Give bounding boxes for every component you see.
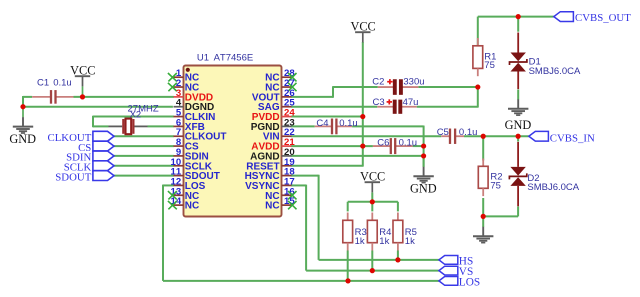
junction VCC/C1 bbox=[80, 94, 85, 99]
wire C1 right to DVDD pin 3 bbox=[74, 96, 174, 98]
capacitor C4 0.1u bbox=[315, 118, 358, 135]
pin 23 PGND (right) bbox=[251, 117, 295, 132]
svg-text:NC: NC bbox=[185, 201, 199, 212]
wire CLKIN pin 5 jog bbox=[93, 116, 174, 128]
pin 27 NC (right) bbox=[265, 78, 296, 94]
wire GND line riser mid bbox=[423, 155, 425, 167]
wire VIN pin 22 to C5 bbox=[291, 135, 441, 137]
wire SCLK port to pin 10 bbox=[114, 165, 174, 167]
pin 24 PVDD (right) bbox=[252, 108, 296, 124]
pin 10 SCLK (left) bbox=[171, 157, 213, 173]
pin 11 SDOUT (left) bbox=[171, 167, 220, 183]
junction D2/CVBS_IN bbox=[516, 134, 521, 139]
junction CVBS_OUT/D1 bbox=[516, 14, 521, 19]
junction R3/LOS bbox=[345, 278, 350, 283]
pin 8 CS (left) bbox=[174, 137, 200, 153]
wire LOS row to port bbox=[163, 280, 439, 282]
pin 2 NC (left) bbox=[168, 78, 199, 94]
pin 7 CLKOUT (left) bbox=[174, 127, 227, 143]
ground (left, C1/DGND) bbox=[9, 107, 36, 146]
IC U1 value AT7456E bbox=[214, 53, 254, 64]
power flag VCC (pull-up rail) bbox=[360, 170, 385, 193]
wire LOS pin 12 jog down bbox=[163, 185, 174, 281]
port CVBS_IN bbox=[529, 131, 595, 144]
wire SDOUT port to pin 11 bbox=[114, 175, 174, 177]
wire VCC3 stem bbox=[371, 193, 373, 203]
svg-text:C5: C5 bbox=[437, 127, 449, 138]
capacitor C3 47u (polarized) bbox=[373, 97, 419, 114]
IC U1 refdes U1 bbox=[197, 53, 209, 64]
port LOS bbox=[439, 276, 480, 288]
wire pullup top rail bbox=[348, 202, 398, 212]
svg-text:SMBJ6.0CA: SMBJ6.0CA bbox=[527, 182, 579, 193]
wire C5 right to R2 junction bbox=[464, 135, 483, 137]
pin 28 NC (right) bbox=[265, 68, 296, 84]
junction R1/C2/C3 node bbox=[475, 84, 480, 89]
resistor R2 75 bbox=[478, 159, 502, 197]
wire R5 bottom to HS row bbox=[397, 251, 399, 260]
svg-text:1k: 1k bbox=[379, 236, 389, 247]
wire R4 bottom to VS row bbox=[371, 251, 373, 271]
pin 3 DVDD (left) bbox=[174, 88, 214, 104]
svg-text:75: 75 bbox=[484, 60, 495, 71]
svg-text:CVBS_IN: CVBS_IN bbox=[550, 132, 595, 144]
IC U1 pin-1 dot bbox=[186, 68, 190, 72]
wire D1 bottom to ground bbox=[517, 90, 519, 100]
wire GND to C1 row (net VCC/C1 left) bbox=[23, 96, 32, 107]
wire PVDD pin 24 to VCC line bbox=[291, 116, 363, 118]
wire D1 junction to CVBS_OUT bbox=[518, 16, 554, 18]
svg-text:47u: 47u bbox=[403, 97, 419, 108]
wire R2 junction to D2 junction to CVBS_IN bbox=[483, 135, 529, 137]
wire R1 bottom to junction bbox=[477, 85, 479, 88]
port HS bbox=[439, 255, 473, 267]
junction VCC/pull-up rail bbox=[370, 199, 375, 204]
wire C6 right to GND line bbox=[413, 145, 424, 147]
wire GND to DGND pin 4 bbox=[22, 106, 173, 108]
wire R1 top corner bbox=[478, 17, 518, 46]
TVS diode D1 SMBJ6.0CA bbox=[510, 33, 582, 90]
wire C3 right corner up to R1 junction bbox=[417, 87, 478, 108]
wire PGND pin 23 to C4 bbox=[291, 125, 315, 127]
svg-text:VCC: VCC bbox=[350, 19, 375, 33]
ground (below D1) bbox=[505, 99, 532, 132]
wire CS port to pin 8 bbox=[114, 145, 174, 147]
svg-text:0.1u: 0.1u bbox=[53, 77, 71, 88]
port CLKOUT bbox=[48, 131, 114, 144]
pin 14 NC (left) bbox=[168, 196, 199, 212]
svg-text:SMBJ6.0CA: SMBJ6.0CA bbox=[529, 66, 581, 77]
pin 25 SAG (right) bbox=[258, 98, 295, 114]
pin 18 HSYNC (right) bbox=[245, 167, 296, 183]
wire SAG pin 25 to C3 bbox=[291, 106, 377, 108]
wire RESET pin 19 to VCC line bbox=[291, 165, 363, 167]
wire HSYNC jog to HS row bbox=[291, 175, 439, 260]
TVS diode D2 SMBJ6.0CA bbox=[509, 142, 579, 206]
wire crystal right to XFB pin 6 bbox=[148, 125, 174, 127]
svg-text:GND: GND bbox=[9, 132, 36, 146]
resistor R1 75 bbox=[473, 38, 497, 76]
wire R2 top bbox=[482, 136, 484, 160]
wire C2 right to R1 junction bbox=[418, 86, 478, 88]
wire SDIN port to pin 9 bbox=[114, 155, 174, 157]
svg-text:C2: C2 bbox=[372, 77, 384, 88]
junction VCC/AVDD bbox=[360, 143, 365, 148]
port SCLK bbox=[64, 161, 114, 174]
junction R4/VS bbox=[370, 268, 375, 273]
svg-text:0.1u: 0.1u bbox=[399, 137, 418, 148]
power flag VCC (left, C1) bbox=[70, 63, 95, 97]
wire D2 top bbox=[517, 136, 519, 141]
wire R2 bottom to junction bbox=[482, 198, 484, 217]
wire R3 bottom to LOS row bbox=[347, 251, 349, 281]
junction R5/HS bbox=[395, 257, 400, 262]
resistor R5 1k bbox=[393, 213, 417, 251]
port CVBS_OUT bbox=[554, 12, 631, 24]
svg-text:C4: C4 bbox=[316, 118, 328, 129]
crystal X2 27MHZ bbox=[109, 103, 159, 134]
svg-text:0.1u: 0.1u bbox=[339, 118, 358, 129]
svg-text:GND: GND bbox=[410, 182, 437, 196]
capacitor C5 0.1u bbox=[437, 127, 478, 144]
power flag VCC (top rail) bbox=[350, 19, 375, 42]
wire crystal left bbox=[93, 125, 109, 127]
svg-text:1k: 1k bbox=[405, 236, 415, 247]
wire ground riser below R2 D2 bbox=[482, 216, 484, 227]
svg-text:C1: C1 bbox=[37, 77, 49, 88]
pin 19 RESET (right) bbox=[246, 157, 294, 173]
wire D2 bottom corner bbox=[483, 207, 518, 217]
pin 12 LOS (left) bbox=[171, 176, 206, 192]
op-amp/IC body U1 AT7456E bbox=[184, 66, 282, 217]
junction VCC/PVDD bbox=[360, 114, 365, 119]
svg-text:GND: GND bbox=[505, 118, 532, 132]
junction VIN/R2 bbox=[481, 134, 486, 139]
port SDOUT bbox=[55, 171, 114, 184]
svg-text:NC: NC bbox=[265, 201, 279, 212]
capacitor C1 0.1u bbox=[32, 77, 73, 103]
pin 21 AVDD (right) bbox=[251, 137, 295, 153]
pin 1 NC (left) bbox=[168, 68, 199, 84]
wire CLKOUT port to pin 7 bbox=[114, 135, 174, 137]
pin 22 VIN (right) bbox=[263, 127, 295, 143]
svg-text:330u: 330u bbox=[403, 77, 424, 88]
svg-text:X2: X2 bbox=[130, 110, 142, 121]
pin 13 NC (left) bbox=[168, 186, 199, 202]
ground (below R2/D2) bbox=[473, 227, 493, 243]
svg-text:C6: C6 bbox=[377, 137, 389, 148]
resistor R3 1k bbox=[343, 213, 367, 251]
wire VCC top vertical bbox=[362, 42, 364, 117]
pin 26 VOUT (right) bbox=[252, 88, 295, 104]
capacitor C6 0.1u bbox=[373, 137, 417, 154]
junction C6/GND line bbox=[421, 143, 426, 148]
junction R2/D2/GND bbox=[481, 214, 486, 219]
wire VOUT pin 26 jog up to C2 bbox=[291, 86, 378, 98]
pin 9 SDIN (left) bbox=[174, 147, 209, 163]
pin 17 VSYNC (right) bbox=[245, 176, 295, 192]
svg-text:1k: 1k bbox=[355, 236, 365, 247]
junction AGND/GND line bbox=[421, 153, 426, 158]
pin 20 AGND (right) bbox=[250, 147, 295, 163]
svg-text:AT7456E: AT7456E bbox=[214, 53, 254, 64]
svg-text:VCC: VCC bbox=[70, 63, 95, 77]
wire C4 right corner down bbox=[352, 126, 424, 167]
wire VCC line PVDD to RESET bbox=[362, 117, 364, 167]
svg-text:SDOUT: SDOUT bbox=[55, 171, 91, 183]
wire D1 top lead bbox=[517, 17, 519, 32]
port SDIN bbox=[66, 151, 114, 164]
pin 15 NC (right) bbox=[265, 196, 296, 212]
port VS bbox=[439, 266, 473, 278]
wire VSYNC jog to VS row bbox=[291, 185, 439, 271]
capacitor C2 330u (polarized) bbox=[372, 77, 424, 95]
pin 4 DGND (left) bbox=[174, 98, 215, 114]
svg-text:LOS: LOS bbox=[459, 276, 480, 288]
svg-text:0.1u: 0.1u bbox=[459, 127, 478, 138]
pin 5 CLKIN (left) bbox=[174, 108, 216, 124]
wire AVDD pin 21 to C6 bbox=[291, 145, 373, 147]
junction GND/DGND bbox=[20, 104, 25, 109]
ground (mid, AGND/C4/C6) bbox=[410, 167, 437, 196]
svg-text:U1: U1 bbox=[197, 53, 209, 64]
pin 16 NC (right) bbox=[265, 186, 296, 202]
port CS bbox=[78, 141, 114, 154]
wire AGND pin 20 to GND line bbox=[291, 155, 423, 157]
svg-text:VCC: VCC bbox=[360, 170, 385, 184]
resistor R4 1k bbox=[367, 213, 391, 251]
svg-text:75: 75 bbox=[490, 181, 501, 192]
svg-text:CVBS_OUT: CVBS_OUT bbox=[575, 12, 631, 24]
svg-text:C3: C3 bbox=[373, 97, 385, 108]
pin 6 XFB (left) bbox=[174, 117, 205, 132]
